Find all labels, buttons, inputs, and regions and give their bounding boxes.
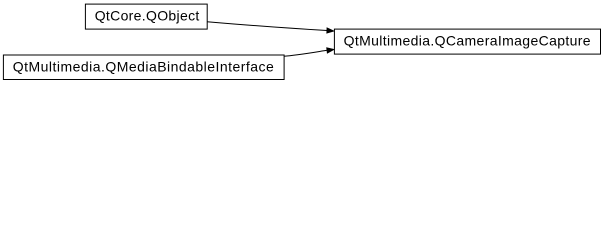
node QtMultimedia.QMediaBindableInterface <box>3 55 284 80</box>
svg-text:QtMultimedia.QCameraImageCaptu: QtMultimedia.QCameraImageCapture <box>344 32 591 48</box>
edge QtMultimedia.QMediaBindableInterface -> QtMultimedia.QCameraImageCapture <box>284 48 334 56</box>
svg-text:QtCore.QObject: QtCore.QObject <box>95 7 200 23</box>
arrowhead <box>327 48 334 53</box>
wire <box>207 22 327 31</box>
svg-text:QtMultimedia.QMediaBindableInt: QtMultimedia.QMediaBindableInterface <box>13 58 274 74</box>
edge QtCore.QObject -> QtMultimedia.QCameraImageCapture <box>207 22 334 33</box>
node QtCore.QObject <box>85 4 207 29</box>
arrowhead <box>327 28 334 33</box>
node QtMultimedia.QCameraImageCapture <box>334 29 600 54</box>
wire <box>284 50 327 56</box>
